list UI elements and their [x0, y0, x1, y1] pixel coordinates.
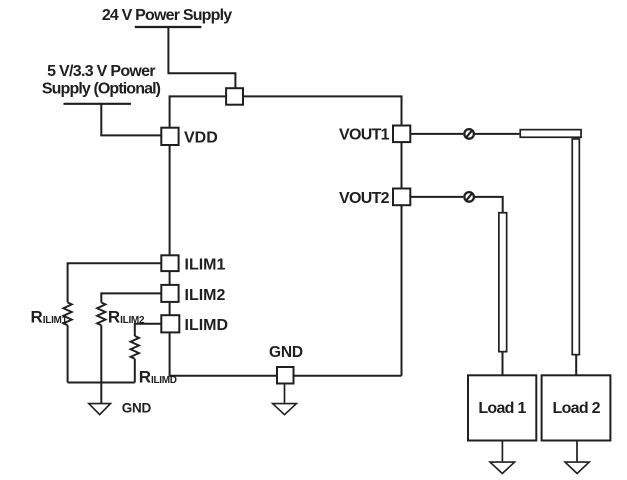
- cable to Load 2, vertical section: [572, 139, 579, 355]
- svg-text:VOUT1: VOUT1: [339, 127, 390, 144]
- pin ILIM2 (square): [161, 285, 178, 302]
- wire: probe to Load 2 cable: [475, 133, 519, 135]
- wire: 5 V bar down and right to VDD pin: [101, 104, 161, 136]
- resistor R_ILIM1 (zigzag): [63, 303, 71, 326]
- svg-text:GND: GND: [269, 344, 303, 361]
- wire: VOUT2 pin to probe symbol: [410, 196, 463, 198]
- wire: VOUT1 pin to probe symbol: [410, 133, 463, 135]
- ground (Load 2): [565, 462, 589, 473]
- terminal J1 (24 V input square): [226, 88, 243, 105]
- svg-text:Supply (Optional): Supply (Optional): [42, 81, 161, 98]
- wire: Load 2 to ground: [576, 441, 578, 462]
- wire: IC left edge, ILIM2 to ILIMD: [169, 302, 171, 315]
- svg-text:24 V Power Supply: 24 V Power Supply: [102, 7, 232, 24]
- svg-text:ILIMD: ILIMD: [185, 317, 229, 334]
- svg-text:ILIM1: ILIM1: [185, 257, 226, 274]
- wire: IC right edge, VOUT1 to VOUT2: [401, 142, 403, 188]
- wire: ILIMD pin left and down to resistor R_ILIMD: [135, 324, 162, 336]
- wire: GND pin down to ground: [284, 384, 286, 403]
- wire: 24 V bar down and right to input terminal: [168, 27, 235, 88]
- resistor R_ILIMD (zigzag): [131, 336, 139, 359]
- wire: R_ILIM2 down through rail to ground: [100, 325, 102, 403]
- wire: Load2 cable to Load 2 box: [575, 356, 577, 376]
- ground (Load 1): [490, 462, 515, 473]
- pin GND (square): [277, 367, 294, 384]
- wire: probe right then down to Load 1 cable: [475, 197, 503, 212]
- pin VDD (square): [161, 128, 178, 145]
- pin ILIMD (square): [161, 315, 179, 332]
- wire: IC right edge, VOUT2 down to bottom rail: [401, 205, 403, 376]
- wire: ILIM1 pin left and down to resistor R_ILIM1: [68, 263, 162, 302]
- svg-text:ILIM2: ILIM2: [185, 287, 226, 304]
- wire: terminal J1 right to VOUT1 corner (IC top edge): [243, 96, 402, 125]
- resistor R_ILIM2 (zigzag): [97, 303, 105, 326]
- svg-text:Load 1: Load 1: [478, 400, 526, 417]
- svg-text:GND: GND: [122, 401, 152, 416]
- wire: R_ILIM1 to resistor ground rail: [67, 325, 69, 382]
- probe symbol on VOUT2 (circle with slash): [464, 192, 474, 202]
- wire: ILIM2 pin left and down to resistor R_ILIM2: [101, 293, 161, 302]
- pin ILIM1 (square): [161, 255, 178, 271]
- cable to Load 2, horizontal section: [520, 130, 581, 138]
- svg-text:Load 2: Load 2: [553, 400, 601, 417]
- wire: GND pin to IC right edge (bottom rail): [294, 375, 402, 377]
- ground (GND pin): [273, 404, 297, 415]
- cable to Load 1, vertical section: [499, 213, 507, 352]
- wire: IC left edge, ILIMD down to bottom rail: [170, 332, 277, 375]
- svg-text:VDD: VDD: [184, 130, 218, 147]
- resistor ground rail: [68, 382, 135, 384]
- pin VOUT2 (square): [393, 189, 410, 206]
- probe symbol on VOUT1 (circle with slash): [464, 129, 474, 139]
- 5 V supply terminal bar: [64, 103, 132, 105]
- wire: Load 1 to ground: [501, 441, 503, 462]
- 24 V supply terminal bar: [135, 26, 202, 28]
- ground (resistors): [89, 404, 111, 415]
- pin VOUT1 (square): [393, 126, 410, 143]
- wire: IC left edge, VDD to ILIM1: [169, 145, 171, 255]
- Load 2 box: [542, 375, 611, 440]
- wire: terminal J1 left to VDD corner: [170, 96, 227, 127]
- Load 1 box: [468, 375, 536, 440]
- wire: IC left edge, ILIM1 to ILIM2: [169, 271, 171, 285]
- svg-text:VOUT2: VOUT2: [339, 190, 390, 207]
- wire: R_ILIMD to resistor ground rail: [134, 359, 136, 383]
- wire: Load1 cable to Load 1 box: [502, 353, 504, 376]
- svg-text:5 V/3.3 V Power: 5 V/3.3 V Power: [47, 63, 155, 80]
